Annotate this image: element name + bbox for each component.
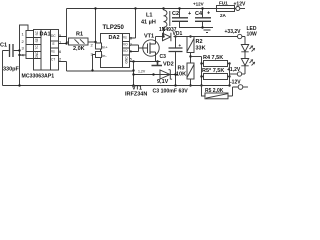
node +1,2V column	[228, 75, 230, 77]
svg-text:VD1: VD1	[173, 31, 183, 37]
svg-text:-12V: -12V	[230, 80, 241, 86]
terminal +12V	[236, 7, 240, 11]
svg-text:DC: DC	[51, 34, 56, 38]
svg-text:SC: SC	[35, 30, 39, 35]
node left column	[200, 62, 202, 64]
transistor VT1 MOSFET circle	[143, 40, 159, 56]
svg-text:GND: GND	[125, 56, 129, 64]
node C3 bottom	[174, 84, 176, 86]
svg-text:2: 2	[91, 43, 94, 48]
svg-text:3: 3	[91, 52, 94, 57]
resistor R4	[202, 63, 230, 65]
wire LED bottom to +1,2V	[242, 73, 245, 75]
wire riser from DA1 to top rail	[66, 9, 68, 44]
svg-text:2,0K: 2,0K	[73, 46, 85, 52]
node zener left	[132, 73, 134, 75]
svg-text:6: 6	[130, 49, 133, 54]
svg-text:5: 5	[130, 57, 133, 62]
svg-text:+: +	[179, 43, 182, 48]
node C2 rail	[178, 7, 180, 9]
terminal -12V	[238, 85, 243, 90]
svg-text:3: 3	[22, 46, 25, 51]
node C1 right	[18, 49, 20, 51]
svg-text:C2: C2	[172, 11, 179, 17]
node pin4	[18, 54, 20, 56]
svg-text:Vs: Vs	[51, 50, 55, 54]
bottom rail	[3, 85, 230, 87]
svg-text:Vs: Vs	[123, 36, 127, 40]
svg-text:2: 2	[59, 57, 62, 62]
LED arrows 1	[250, 46, 255, 52]
svg-text:GND: GND	[35, 51, 39, 59]
svg-text:VD2: VD2	[163, 62, 174, 68]
svg-text:C4: C4	[195, 11, 203, 17]
svg-text:DA1: DA1	[40, 32, 51, 38]
wire DA1 right pins to R1	[59, 37, 69, 44]
wire C1 left down	[2, 51, 4, 86]
svg-text:R4 7,5K: R4 7,5K	[203, 55, 223, 61]
zener diode VD2	[160, 70, 172, 80]
wire DA2 pin5 to source node	[130, 61, 161, 63]
wire drain to node	[156, 36, 164, 38]
terminal +1,2V	[237, 72, 241, 76]
svg-text:TC: TC	[35, 45, 39, 50]
svg-text:R5 2,0K: R5 2,0K	[205, 88, 224, 94]
svg-text:+1,2V: +1,2V	[227, 67, 241, 73]
node L1 top on rail	[162, 7, 164, 9]
wire DA1 lower pin loop	[59, 62, 134, 72]
wire DA1 pin1 top loop	[20, 25, 29, 86]
node rail x95	[94, 7, 96, 9]
node rail x135	[134, 7, 136, 9]
node loop x92	[91, 69, 93, 71]
svg-text:9,1V: 9,1V	[157, 79, 169, 85]
svg-text:MC33063AP1: MC33063AP1	[22, 74, 55, 80]
node left column bottom	[200, 84, 202, 86]
wire zener branch	[134, 74, 178, 76]
svg-text:R2: R2	[196, 39, 203, 45]
svg-text:33K: 33K	[196, 46, 206, 52]
node R2 top	[189, 35, 191, 37]
node C3 top	[174, 35, 176, 37]
svg-text:IRFZ34N: IRFZ34N	[125, 92, 147, 98]
svg-text:10W: 10W	[247, 32, 258, 38]
svg-text:330pF: 330pF	[3, 67, 20, 73]
capacitor C3	[175, 37, 177, 86]
svg-text:SE: SE	[35, 38, 39, 42]
wire pin4 stub	[20, 54, 27, 56]
wire C2-C4 ground link	[180, 27, 208, 29]
wire riser rail to DA2 pin8	[130, 9, 136, 39]
node loop x133	[132, 69, 134, 71]
svg-text:VO: VO	[123, 43, 128, 47]
opto-coupler DA2 body	[101, 34, 130, 68]
source bar symbol	[152, 62, 163, 66]
svg-text:1: 1	[22, 32, 25, 37]
node DA1 out / rail riser	[65, 42, 67, 44]
pin box DA2 pin2	[96, 43, 102, 49]
wire DA2 pin3 down loop	[93, 55, 96, 71]
svg-text:C3 100mF 63V: C3 100mF 63V	[153, 88, 189, 94]
terminal +33,2V	[238, 34, 242, 38]
node gnd	[201, 26, 203, 28]
resistor R1	[69, 38, 89, 45]
wire riser rail to DA2 pin2	[95, 9, 97, 44]
node L1 bottom	[162, 35, 164, 37]
pin box DA1 pin4	[26, 52, 34, 59]
node R3 bottom	[189, 84, 191, 86]
svg-text:6: 6	[59, 49, 62, 54]
node C4 rail	[201, 7, 203, 9]
svg-text:+12V: +12V	[193, 2, 204, 7]
capacitor C4	[202, 9, 204, 29]
svg-text:7: 7	[59, 40, 62, 45]
node zener right C3	[174, 73, 176, 75]
LED arrows 2	[250, 60, 255, 66]
pin box DA2 pin3	[96, 52, 102, 58]
svg-text:+12V: +12V	[234, 2, 246, 8]
svg-text:7: 7	[130, 42, 133, 47]
svg-text:1,2V: 1,2V	[138, 70, 146, 74]
pin box DA1 pin3	[26, 45, 34, 52]
node zener mid	[152, 73, 154, 75]
wire top +12V rail	[67, 8, 217, 10]
capacitor C2	[179, 9, 181, 29]
ground symbol	[201, 28, 213, 33]
svg-text:R1: R1	[76, 32, 83, 38]
node bottom x133	[132, 84, 134, 86]
resistor R2 (preset)	[187, 37, 194, 53]
node source	[156, 60, 158, 62]
svg-text:In-: In-	[102, 53, 107, 58]
svg-text:+: +	[207, 11, 210, 17]
svg-text:TLP250: TLP250	[103, 25, 125, 31]
wire R1 to DA2 pin2	[88, 41, 96, 43]
wire right column	[229, 64, 231, 86]
svg-text:E: E	[53, 42, 55, 46]
svg-text:C3: C3	[160, 54, 167, 60]
svg-text:FU1: FU1	[219, 1, 228, 6]
resistor R5 parallel	[202, 76, 230, 78]
svg-text:CT: CT	[51, 58, 55, 62]
pin box DA1 pin1	[26, 31, 34, 38]
svg-text:C1: C1	[0, 43, 7, 49]
svg-text:2: 2	[22, 39, 25, 44]
node R1 right	[94, 41, 96, 43]
svg-text:2A: 2A	[220, 13, 227, 18]
wire junction to divider	[191, 56, 202, 58]
svg-text:VO: VO	[123, 49, 128, 53]
LED HL2	[241, 59, 248, 75]
wire riser x133 to bottom rail	[133, 62, 135, 86]
svg-text:DA2: DA2	[109, 35, 120, 41]
LED HL1	[241, 45, 248, 59]
node pin5 x133	[132, 60, 134, 62]
pin box DA1 pin2	[26, 38, 34, 45]
node gnd left on rail	[18, 84, 20, 86]
inductor L1	[164, 9, 168, 37]
svg-text:10K: 10K	[176, 72, 186, 78]
resistor R3 (preset)	[187, 63, 194, 79]
svg-text:+33,2V: +33,2V	[225, 29, 242, 35]
chip DA1 body	[34, 30, 59, 71]
node R2/R3 junction	[189, 55, 191, 57]
svg-text:41 µH: 41 µH	[141, 20, 156, 26]
wire left column R4R5	[201, 57, 203, 86]
svg-text:R5* 7,5K: R5* 7,5K	[202, 68, 224, 74]
svg-text:In+: In+	[102, 45, 108, 50]
fuse FU1	[217, 6, 235, 12]
svg-text:+: +	[188, 11, 191, 17]
capacitor C1	[3, 50, 20, 52]
svg-text:5: 5	[59, 33, 62, 38]
wire output rail +33,2V	[174, 36, 238, 38]
wire DA2 pins 7,6 join to gate	[130, 45, 148, 52]
svg-text:L1: L1	[146, 13, 152, 19]
trimmer R5 2,0K	[202, 86, 206, 97]
svg-text:VT1: VT1	[144, 34, 154, 40]
diode VD1	[163, 33, 171, 42]
